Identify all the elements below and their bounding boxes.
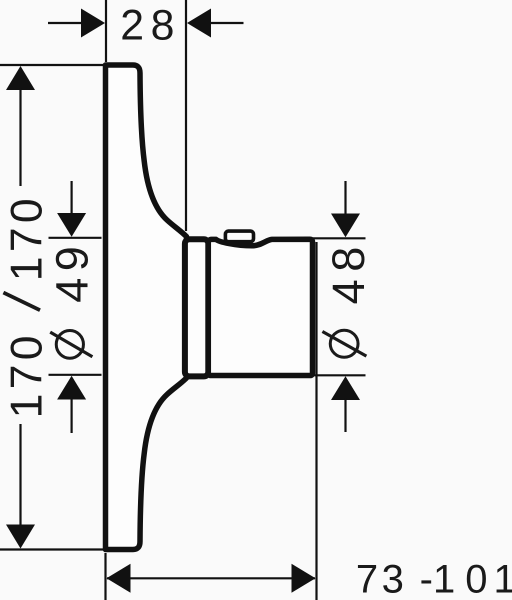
dim Ø48 arrows, x=345.5 <box>331 181 360 432</box>
flange (escutcheon) outline with trumpet curves <box>106 65 187 550</box>
Ø49 extension lines (left of flange) <box>49 237 102 239</box>
bottom-left extension line for 73-101, x=105.5 <box>104 553 106 600</box>
dim 73-101 line with outward arrows, y=578.3 <box>107 564 316 593</box>
extension line left of 28 dim (wall plane), x=106 <box>105 0 107 62</box>
dim 28 right arrow + tail <box>187 9 244 38</box>
index button on handle <box>225 231 253 242</box>
Ø48 extension lines (right of handle) <box>313 237 366 239</box>
dim 170/170 vertical line with outward arrows, x=20.5 <box>6 66 35 549</box>
dim Ø49 arrows outside pointing inwards, x=71.6 <box>57 181 86 433</box>
bottom-right extension line for 73-101, x=316.5 <box>315 242 317 600</box>
svg-text:48: 48 <box>323 239 374 304</box>
extension line right of 28 dim, x=186 <box>185 0 187 231</box>
dim 28 left arrow + tail <box>48 9 105 38</box>
svg-text:170 170: 170 170 <box>3 194 52 418</box>
bottom extension line for 170 dim, y=549.5 <box>0 548 104 550</box>
svg-text:49: 49 <box>47 240 98 303</box>
top extension line for 170 dim, y=65 <box>0 64 104 66</box>
sleeve collar (Ø49 rim) <box>185 239 208 376</box>
handle body (Ø48 cylinder) <box>208 239 312 375</box>
